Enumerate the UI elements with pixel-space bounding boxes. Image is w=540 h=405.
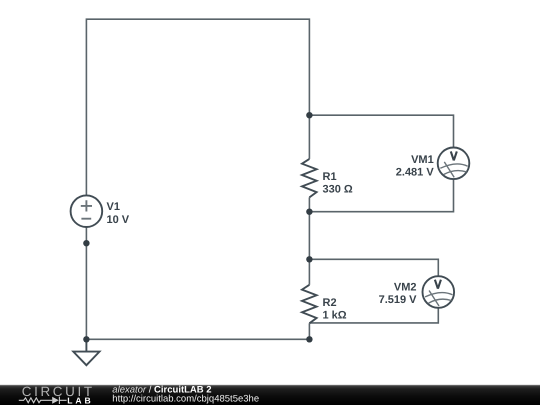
node D: R1 bottom / VM1 return	[306, 209, 312, 215]
svg-text:LAB: LAB	[67, 396, 93, 405]
svg-text:VM1: VM1	[411, 154, 434, 166]
node B: ground junction	[83, 336, 89, 342]
svg-text:R1: R1	[323, 171, 337, 183]
wire: R1 top lead from node A	[308, 115, 310, 159]
voltage source V1	[71, 195, 103, 227]
voltmeter VM2	[423, 276, 455, 308]
wire: top loop from V1 plus terminal up, across, down to node A	[86, 19, 309, 195]
wire: VM2 branch bottom to R2 bottom lead	[309, 308, 438, 323]
svg-text:R2: R2	[323, 297, 337, 309]
svg-text:VM2: VM2	[394, 282, 417, 294]
svg-text:V1: V1	[107, 201, 120, 213]
node A: R1 top / VM1 tap	[306, 112, 312, 118]
svg-text:http://circuitlab.com/cbjq485t: http://circuitlab.com/cbjq485t5e3he	[112, 393, 259, 404]
ground	[73, 339, 99, 365]
wire: R2 bottom lead down to node C	[308, 323, 310, 339]
svg-text:1 kΩ: 1 kΩ	[323, 310, 347, 322]
wire: R1 bottom lead down to node D	[308, 197, 310, 211]
node C: bottom return junction	[306, 336, 312, 342]
wire: VM1 branch top from node A	[309, 115, 453, 147]
wire: V1 minus terminal down to ground node B	[85, 227, 87, 339]
footer bar	[0, 385, 540, 405]
CircuitLab logo resistor-diode glyph	[19, 397, 67, 404]
wire: R2 top lead from node E	[308, 259, 310, 285]
svg-text:10 V: 10 V	[107, 214, 130, 226]
voltmeter VM1	[438, 148, 470, 180]
wire: VM1 branch bottom to node D	[309, 179, 453, 212]
wire: VM2 branch top from node E	[309, 259, 438, 276]
svg-text:7.519 V: 7.519 V	[379, 294, 418, 306]
svg-text:2.481 V: 2.481 V	[396, 167, 435, 179]
node E: R2 top / VM2 tap	[306, 256, 312, 262]
wire: bottom return from node B to node C	[86, 338, 309, 340]
node: V1 minus terminal junction	[83, 240, 89, 246]
resistor R2	[302, 285, 317, 324]
wire: middle segment node D to node E	[308, 212, 310, 260]
svg-text:330 Ω: 330 Ω	[323, 184, 353, 196]
resistor R1	[302, 159, 317, 198]
